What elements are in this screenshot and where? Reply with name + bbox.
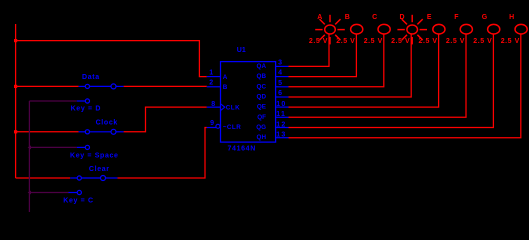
- svg-text:3: 3: [278, 59, 282, 66]
- svg-text:5: 5: [278, 80, 282, 87]
- wire rail to Clock switch: [16, 131, 79, 133]
- wire top to pin A: [16, 41, 207, 77]
- pin 2 B: [207, 86, 221, 88]
- switch Clock: [77, 129, 124, 149]
- svg-text:2.5 V: 2.5 V: [446, 38, 465, 45]
- lamp E 2.5V: [433, 24, 445, 34]
- svg-text:1: 1: [209, 69, 213, 76]
- svg-text:2.5 V: 2.5 V: [309, 38, 328, 45]
- svg-text:10: 10: [276, 101, 286, 108]
- wire rail to Data switch: [16, 85, 79, 87]
- svg-text:E: E: [427, 14, 432, 21]
- svg-text:A: A: [223, 74, 228, 81]
- svg-text:9: 9: [210, 120, 214, 127]
- svg-text:Data: Data: [82, 74, 100, 81]
- svg-text:QE: QE: [257, 104, 266, 111]
- svg-text:Key = D: Key = D: [71, 105, 101, 112]
- wire ground to Clear switch throw: [29, 192, 69, 194]
- svg-text:2.5 V: 2.5 V: [364, 38, 383, 45]
- wire Clock switch to pin CLK: [124, 107, 207, 132]
- svg-text:QF: QF: [257, 114, 266, 121]
- pin 12 QG: [276, 127, 289, 129]
- wire VCC rail: [15, 24, 17, 178]
- switch Clear: [69, 176, 118, 195]
- svg-text:QB: QB: [257, 73, 267, 80]
- svg-text:H: H: [509, 14, 514, 21]
- pin 8 CLK: [207, 106, 221, 108]
- svg-text:QH: QH: [257, 134, 267, 141]
- svg-text:QC: QC: [257, 83, 267, 90]
- wire QB to lamp B: [289, 34, 357, 77]
- svg-text:B: B: [345, 14, 350, 21]
- lamp G 2.5V: [488, 24, 500, 34]
- svg-text:QD: QD: [257, 94, 267, 101]
- svg-text:Key = C: Key = C: [63, 197, 93, 204]
- svg-text:11: 11: [276, 111, 286, 118]
- wire Data switch to pin B: [124, 85, 207, 87]
- svg-text:12: 12: [276, 121, 286, 128]
- svg-text:13: 13: [276, 132, 286, 139]
- IC U1 74164N body: [221, 62, 276, 143]
- pin 9 CLR (active low bubble): [207, 127, 216, 129]
- svg-text:QA: QA: [257, 63, 267, 70]
- svg-text:U1: U1: [237, 47, 246, 54]
- svg-text:Key = Space: Key = Space: [70, 152, 119, 159]
- wire QD to lamp D: [289, 34, 412, 97]
- wire rail to Clear switch: [16, 177, 71, 179]
- wire ground to Data switch throw: [29, 100, 77, 102]
- svg-text:B: B: [223, 84, 228, 91]
- svg-text:6: 6: [278, 90, 282, 97]
- node rail-data junction: [14, 85, 17, 88]
- lamp H 2.5V: [515, 24, 527, 34]
- wire ground to Clock switch throw: [29, 146, 77, 148]
- svg-text:2.5 V: 2.5 V: [419, 38, 438, 45]
- lamp A 2.5V: [315, 15, 345, 45]
- svg-text:D: D: [400, 14, 405, 21]
- svg-text:74164N: 74164N: [228, 146, 256, 153]
- node ground-clock junction: [28, 145, 31, 149]
- pin 6 QD: [276, 96, 289, 98]
- lamp D 2.5V: [397, 15, 427, 45]
- svg-text:Clear: Clear: [89, 166, 110, 173]
- svg-text:F: F: [454, 14, 459, 21]
- node rail-top junction: [14, 39, 17, 42]
- node rail-clock junction: [14, 130, 17, 133]
- wire QH to lamp H: [289, 34, 521, 138]
- svg-text:C: C: [372, 14, 377, 21]
- svg-text:QG: QG: [256, 124, 266, 131]
- lamp F 2.5V: [460, 24, 472, 34]
- svg-text:4: 4: [278, 70, 282, 77]
- wire Clear switch to pin CLR: [117, 128, 206, 178]
- wire QG to lamp G: [289, 34, 494, 128]
- pin 1 A: [207, 76, 221, 78]
- svg-text:8: 8: [211, 101, 215, 108]
- svg-text:2.5 V: 2.5 V: [391, 38, 410, 45]
- wire ground rail: [28, 101, 30, 212]
- wire QC to lamp C: [289, 34, 384, 87]
- pin 5 QC: [276, 86, 289, 88]
- node ground-clear junction: [28, 191, 31, 195]
- svg-text:Clock: Clock: [96, 120, 118, 127]
- wire QA to lamp A: [289, 34, 330, 66]
- wire QF to lamp F: [289, 34, 467, 117]
- pin 13 QH: [276, 137, 289, 139]
- svg-text:G: G: [482, 14, 488, 21]
- svg-text:2: 2: [209, 80, 213, 87]
- svg-text:A: A: [317, 14, 322, 21]
- svg-text:2.5 V: 2.5 V: [473, 38, 492, 45]
- svg-text:2.5 V: 2.5 V: [336, 38, 355, 45]
- pin 3 QA: [276, 65, 289, 67]
- pin 4 QB: [276, 76, 289, 78]
- switch Data: [77, 84, 124, 103]
- lamp B 2.5V: [351, 24, 363, 34]
- pin 11 QF: [276, 116, 289, 118]
- svg-text:~CLR: ~CLR: [223, 124, 241, 131]
- svg-text:2.5 V: 2.5 V: [501, 38, 520, 45]
- wire QE to lamp E: [289, 34, 439, 107]
- pin 10 QE: [276, 106, 289, 108]
- svg-text:CLK: CLK: [226, 104, 240, 111]
- lamp C 2.5V: [378, 24, 390, 34]
